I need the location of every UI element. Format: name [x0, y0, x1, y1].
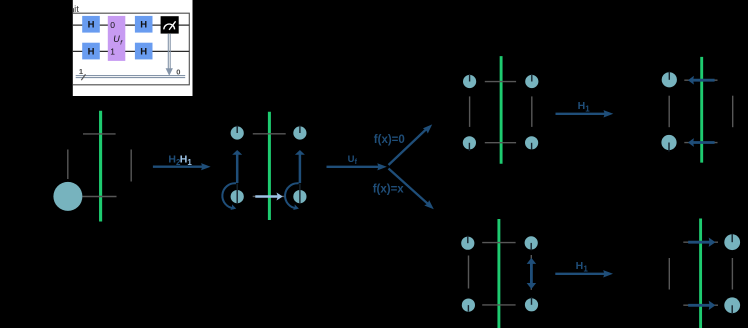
svg-text:H: H [180, 153, 188, 165]
svg-text:1: 1 [79, 67, 83, 76]
svg-text:f(x)=x: f(x)=x [373, 184, 405, 196]
svg-text:1: 1 [583, 265, 588, 274]
svg-text:H: H [576, 260, 584, 272]
svg-text:U: U [348, 154, 355, 165]
svg-text:0: 0 [176, 67, 180, 76]
svg-text:H: H [140, 46, 147, 57]
svg-text:H: H [578, 100, 586, 112]
svg-text:1: 1 [585, 105, 590, 114]
svg-text:H: H [88, 20, 95, 31]
svg-text:H: H [88, 46, 95, 57]
svg-text:H: H [140, 20, 147, 31]
svg-text:0: 0 [110, 20, 115, 30]
svg-text:f(x)=0: f(x)=0 [374, 134, 405, 146]
svg-text:1: 1 [110, 47, 115, 57]
svg-text:H: H [168, 153, 176, 165]
svg-text:U: U [113, 34, 120, 44]
svg-text:1: 1 [187, 158, 192, 167]
